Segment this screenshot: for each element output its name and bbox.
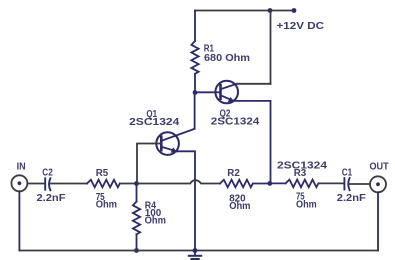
ground symbol bbox=[189, 251, 201, 260]
wire node A to R2 with hop over emitter wire bbox=[137, 180, 221, 183]
junction dot ground node bbox=[193, 248, 198, 253]
wire Q2 collector to +12V node bbox=[237, 83, 271, 85]
wire R1 to node B bbox=[194, 74, 196, 93]
connector IN bbox=[11, 175, 27, 191]
svg-text:IN: IN bbox=[17, 161, 26, 173]
capacitor C1 bbox=[344, 178, 349, 190]
wire IN to ground rail bbox=[18, 191, 20, 250]
wire +12V top rail bbox=[195, 10, 294, 12]
wire R4 to ground rail bbox=[136, 234, 138, 250]
svg-text:Ohm: Ohm bbox=[145, 215, 166, 227]
wire Q1 base to node A bbox=[137, 144, 161, 184]
wire node B to Q1 collector bbox=[194, 93, 196, 129]
connector OUT bbox=[370, 176, 386, 192]
svg-text:2.2nF: 2.2nF bbox=[337, 192, 367, 204]
node C junction dot bbox=[267, 181, 272, 186]
svg-text:+12V DC: +12V DC bbox=[277, 20, 325, 32]
svg-text:2SC1324: 2SC1324 bbox=[211, 116, 260, 128]
wire R2 to node C bbox=[254, 183, 270, 185]
wire C2 to R5 bbox=[50, 183, 87, 185]
wire Q2 collector riser to +12V rail bbox=[270, 11, 272, 84]
wire +12V rail to R1 bbox=[194, 11, 196, 42]
junction dot +12V node bbox=[268, 8, 273, 13]
wire node C to R3 bbox=[270, 182, 286, 184]
resistor R5 bbox=[87, 180, 120, 188]
svg-text:2.2nF: 2.2nF bbox=[37, 192, 67, 204]
junction dot R4 at ground rail bbox=[134, 248, 139, 253]
wire node B to Q2 base bbox=[195, 91, 221, 93]
svg-text:C2: C2 bbox=[42, 166, 53, 178]
svg-text:OUT: OUT bbox=[370, 160, 390, 172]
capacitor C2 bbox=[45, 178, 50, 190]
resistor R3 bbox=[286, 180, 319, 188]
resistor R4 bbox=[133, 202, 140, 235]
svg-text:Ohm: Ohm bbox=[296, 198, 317, 210]
terminal dot +12V rail end bbox=[292, 8, 297, 13]
svg-text:680 Ohm: 680 Ohm bbox=[204, 52, 250, 64]
wire ground rail bottom bbox=[19, 250, 378, 252]
svg-text:C1: C1 bbox=[342, 166, 353, 178]
svg-text:R5: R5 bbox=[96, 167, 109, 179]
node B junction dot bbox=[193, 90, 198, 95]
resistor R2 bbox=[220, 180, 253, 188]
svg-text:R3: R3 bbox=[294, 167, 307, 179]
wire C1 to OUT bbox=[349, 183, 370, 185]
svg-text:Ohm: Ohm bbox=[229, 200, 250, 212]
transistor Q1 bbox=[156, 129, 194, 155]
wire Q1 emitter to ground rail bbox=[177, 151, 195, 250]
svg-text:2SC1324: 2SC1324 bbox=[129, 116, 179, 128]
node A junction dot bbox=[134, 181, 139, 186]
svg-text:R2: R2 bbox=[227, 167, 240, 179]
wire OUT to ground rail bbox=[377, 192, 379, 250]
wire Q2 emitter to node C bbox=[234, 101, 271, 183]
svg-text:Ohm: Ohm bbox=[96, 199, 117, 211]
transistor Q2 bbox=[215, 81, 238, 104]
wire R5 to node A bbox=[121, 183, 137, 185]
resistor R1 bbox=[191, 41, 198, 74]
wire R3 to C1 bbox=[320, 182, 344, 184]
wire IN to C2 bbox=[27, 183, 44, 185]
wire node A to R4 bbox=[136, 184, 138, 202]
